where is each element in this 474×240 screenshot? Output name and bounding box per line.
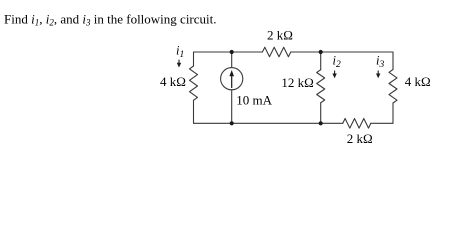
wire right branch upper (392, 52, 394, 70)
resistor 4 kΩ (right) (389, 70, 397, 104)
svg-text:4 kΩ: 4 kΩ (405, 74, 431, 89)
wire left branch lower (193, 100, 195, 123)
wire current source upper stub (231, 52, 233, 68)
resistor 2 kΩ (top) (262, 47, 290, 57)
node dot bottom of 12k (319, 121, 323, 125)
wire bottom-right segment (371, 122, 393, 124)
wire top-left segment (194, 51, 263, 53)
resistor 4 kΩ (left) (190, 66, 198, 100)
wire bottom-left segment (194, 122, 343, 124)
svg-text:12 kΩ: 12 kΩ (281, 75, 313, 90)
arrow i1 (177, 60, 181, 68)
svg-text:4 kΩ: 4 kΩ (160, 74, 186, 89)
arrow i3 (376, 71, 380, 79)
wire 12k branch upper (320, 52, 322, 70)
wire current source lower stub (231, 90, 233, 124)
wire left branch upper (193, 52, 195, 66)
arrow i2 (332, 71, 336, 79)
node dot bottom of current source (230, 121, 234, 125)
wire right branch lower (392, 103, 394, 123)
current source arrow (229, 70, 234, 88)
node dot top of 12k (319, 50, 323, 54)
svg-text:2 kΩ: 2 kΩ (267, 28, 293, 43)
svg-text:10 mA: 10 mA (236, 92, 272, 107)
resistor 12 kΩ (317, 70, 325, 103)
node dot top of current source (230, 50, 234, 54)
wire top-right segment (291, 51, 393, 53)
resistor 2 kΩ (bottom) (343, 119, 371, 129)
svg-text:2 kΩ: 2 kΩ (347, 131, 373, 146)
wire 12k branch lower (320, 103, 322, 124)
current source 10 mA circle (221, 68, 243, 90)
